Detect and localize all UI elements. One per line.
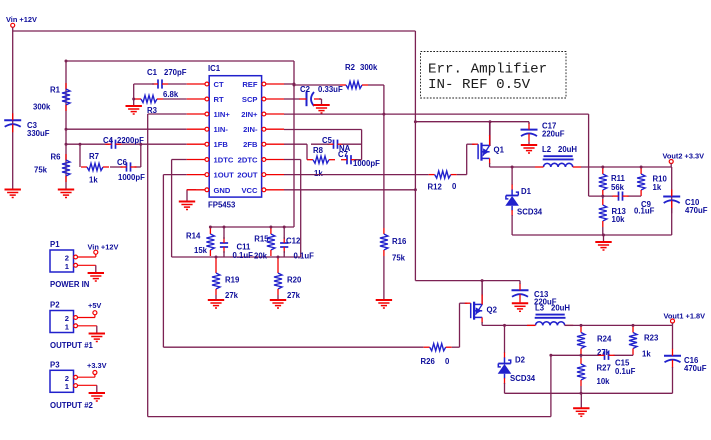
svg-text:1FB: 1FB xyxy=(214,140,229,149)
svg-text:1000pF: 1000pF xyxy=(118,173,145,182)
wire 1DTC drop xyxy=(172,160,187,258)
label C15 xyxy=(615,359,630,368)
svg-text:330uF: 330uF xyxy=(27,129,50,138)
svg-text:270pF: 270pF xyxy=(164,68,187,77)
wire feedback rail ch2 xyxy=(551,354,633,357)
wire R26 to Q2 gate xyxy=(452,303,468,347)
ground for P3 xyxy=(89,385,105,401)
wire VCC rail xyxy=(284,189,415,191)
wire P2 pin2 to +5V terminal xyxy=(78,315,95,318)
wire Q1 drain riser xyxy=(489,122,491,146)
svg-text:P1: P1 xyxy=(50,240,60,249)
wire 1IN- rail xyxy=(66,128,187,130)
svg-text:75k: 75k xyxy=(34,166,48,175)
label R27 value 10k xyxy=(597,377,611,386)
label R12 value 0 xyxy=(452,182,457,191)
svg-text:C4: C4 xyxy=(103,136,114,145)
label R8 xyxy=(313,146,324,155)
svg-text:Q1: Q1 xyxy=(494,146,505,155)
ground for C13 xyxy=(512,302,528,311)
label Vout1 +1.8V xyxy=(664,312,706,321)
connector P1 box xyxy=(50,250,78,272)
label R13 value 10k xyxy=(612,215,626,224)
label R2 xyxy=(345,63,356,72)
svg-text:IC1: IC1 xyxy=(208,64,221,73)
svg-text:CT: CT xyxy=(214,80,224,89)
resistor R7 1k xyxy=(81,163,109,170)
label C2 value 0.33uF xyxy=(318,85,343,94)
wire R16 to ground xyxy=(383,256,385,300)
resistor R14 15k xyxy=(206,228,214,256)
svg-text:SCD34: SCD34 xyxy=(517,207,543,216)
svg-text:R1: R1 xyxy=(50,86,61,95)
label R3 value 6.8k xyxy=(163,90,179,99)
svg-text:FP5453: FP5453 xyxy=(208,201,236,210)
wire +12V top rail xyxy=(13,30,416,32)
label R1 value 300k xyxy=(33,103,51,112)
label C5 value NA xyxy=(339,144,351,153)
svg-text:R2: R2 xyxy=(345,63,356,72)
capacitor C12 0.1uF xyxy=(280,227,288,257)
label R6 value 75k xyxy=(34,166,48,175)
ground for C2 xyxy=(313,99,329,113)
label C5 xyxy=(322,136,333,145)
wire 2OUT rail to R12 xyxy=(284,174,429,176)
wire feedback rail ch1 xyxy=(589,195,642,197)
wire C2 to ground xyxy=(319,98,322,100)
svg-text:+5V: +5V xyxy=(88,301,101,310)
label C2 xyxy=(300,85,311,94)
svg-text:R8: R8 xyxy=(313,146,324,155)
node Vout1 +1.8V terminal xyxy=(671,319,675,325)
label R20 value 27k xyxy=(287,291,301,300)
wire R24-R27 junction xyxy=(580,355,582,359)
svg-text:C5: C5 xyxy=(322,136,333,145)
resistor R20 27k xyxy=(274,267,282,295)
label R23 value 1k xyxy=(642,349,651,358)
label R13 xyxy=(612,207,627,216)
svg-text:SCD34: SCD34 xyxy=(510,374,536,383)
svg-text:1k: 1k xyxy=(89,176,98,185)
svg-text:R14: R14 xyxy=(186,232,201,241)
label R10 xyxy=(653,175,668,184)
svg-text:1OUT: 1OUT xyxy=(214,171,235,180)
svg-text:SCP: SCP xyxy=(242,95,258,104)
resistor R2 300k xyxy=(340,81,368,88)
wire REF to R2 xyxy=(294,84,340,86)
capacitor C2 0.33uF xyxy=(300,92,322,106)
label R16 xyxy=(392,237,407,246)
label R10 value 1k xyxy=(653,183,662,192)
svg-text:RT: RT xyxy=(214,95,224,104)
label Q1 xyxy=(494,146,505,155)
svg-text:R6: R6 xyxy=(51,153,62,162)
label OUTPUT #1 xyxy=(50,341,94,350)
capacitor C5 (NA) xyxy=(311,140,362,149)
wire R1/R6 divider vertical xyxy=(65,61,67,190)
connector P2 box xyxy=(50,311,78,333)
svg-text:D2: D2 xyxy=(515,356,526,365)
svg-text:27k: 27k xyxy=(225,291,239,300)
svg-text:R26: R26 xyxy=(421,357,436,366)
label D2 xyxy=(515,356,526,365)
wire Vout2 to C10 xyxy=(671,167,673,213)
svg-text:P2: P2 xyxy=(50,301,60,310)
wire P1 pin1 to ground xyxy=(78,264,96,266)
note box Err. Amplifier IN- REF 0.5V xyxy=(421,52,567,99)
inductor L2 20uH xyxy=(535,156,581,167)
label C7 xyxy=(338,150,348,159)
resistor R3 6.8k xyxy=(135,95,163,102)
label C15 value 0.1uF xyxy=(615,367,636,376)
svg-text:1k: 1k xyxy=(653,183,662,192)
wire R20 to ground xyxy=(277,295,279,300)
wire C16 to rail xyxy=(672,367,674,393)
wire Q2 source to L3 xyxy=(482,324,535,326)
label L2 xyxy=(542,145,552,154)
capacitor C16 470uF xyxy=(664,349,681,368)
svg-text:R11: R11 xyxy=(611,174,626,183)
pin GND (left 8) xyxy=(187,186,231,195)
svg-text:D1: D1 xyxy=(521,187,532,196)
wire DTC bottom rail xyxy=(172,256,301,258)
ground for R19 xyxy=(208,300,224,308)
svg-text:R27: R27 xyxy=(597,364,611,373)
svg-text:27k: 27k xyxy=(287,291,301,300)
transistor Q2 xyxy=(465,281,483,326)
svg-text:C1: C1 xyxy=(147,68,158,77)
svg-text:R20: R20 xyxy=(287,276,302,285)
wire 1OUT rail to R26 xyxy=(163,346,423,348)
diode D2 SCD34 xyxy=(498,353,512,385)
wire CT/RT ground branch vertical xyxy=(133,84,135,99)
svg-text:C2: C2 xyxy=(300,85,311,94)
label R26 xyxy=(421,357,436,366)
resistor R10 1k xyxy=(637,168,645,196)
pin 2IN- (right 13) xyxy=(243,125,284,134)
resistor R1 300k xyxy=(62,83,70,111)
label C4 xyxy=(103,136,114,145)
wire CT pin to C1 xyxy=(168,83,187,85)
wire D1 to bottom rail xyxy=(511,215,513,235)
label R3 xyxy=(147,106,158,115)
wire 2IN- to C5 network xyxy=(284,130,362,160)
label R2 value 300k xyxy=(360,63,378,72)
resistor R27 10k xyxy=(577,358,585,386)
label R12 xyxy=(428,183,443,192)
label C16 value 470uF xyxy=(684,364,707,373)
svg-text:Vin +12V: Vin +12V xyxy=(88,243,119,252)
svg-text:0.1uF: 0.1uF xyxy=(634,207,655,216)
resistor R11 56k xyxy=(599,168,607,196)
wire R19 to ground xyxy=(215,295,217,300)
wire sense drop ch2 xyxy=(550,355,552,416)
wire R20 top xyxy=(277,257,279,267)
pin 2DTC (right 11) xyxy=(238,156,284,165)
svg-text:10k: 10k xyxy=(612,215,626,224)
label R16 value 75k xyxy=(392,254,406,263)
label C16 xyxy=(684,356,699,365)
svg-text:1k: 1k xyxy=(314,169,323,178)
wire R7/C6 branch xyxy=(80,144,141,167)
svg-text:IN- REF 0.5V: IN- REF 0.5V xyxy=(428,77,531,93)
capacitor C7 1000pF xyxy=(341,155,362,164)
capacitor C9 0.1uF xyxy=(613,192,629,201)
op-amp/controller IC1 FP5453 body xyxy=(209,76,261,197)
label C12 value 0.1uF xyxy=(294,251,315,260)
label OUTPUT #2 xyxy=(50,401,94,410)
label FP5453 xyxy=(208,201,236,210)
node Vout2 +3.3V terminal xyxy=(669,160,673,168)
pin 1IN+ (left 3) xyxy=(187,110,231,119)
label R26 value 0 xyxy=(445,357,450,366)
ground for timing network xyxy=(126,99,142,114)
capacitor C13 220uF xyxy=(512,281,529,303)
wire Vout1 to C16 xyxy=(672,325,674,349)
wire channel2 ground rail xyxy=(505,392,673,394)
ground for channel2 xyxy=(573,393,589,416)
label R7 value 1k xyxy=(89,176,98,185)
label R19 xyxy=(225,276,240,285)
label R11 value 56k xyxy=(611,183,625,192)
wire 2IN+ rail xyxy=(284,113,589,115)
svg-text:Vout1 +1.8V: Vout1 +1.8V xyxy=(664,312,706,321)
wire left input rail down to ground xyxy=(12,31,14,190)
resistor R6 75k xyxy=(62,154,70,182)
wire P1 pin2 to Vin terminal xyxy=(78,254,96,257)
svg-text:P3: P3 xyxy=(50,360,60,369)
resistor R15 20k xyxy=(267,228,275,256)
svg-text:Vout2 +3.3V: Vout2 +3.3V xyxy=(663,151,705,160)
resistor R23 1k xyxy=(629,327,637,355)
resistor R26 0 xyxy=(424,344,452,351)
label R19 value 27k xyxy=(225,291,239,300)
label R15 xyxy=(254,235,269,244)
svg-text:56k: 56k xyxy=(611,183,625,192)
wire L3 to Vout1 xyxy=(565,324,673,326)
wire 2DTC drop xyxy=(284,160,301,258)
label R14 xyxy=(186,232,201,241)
label P3 xyxy=(50,360,60,369)
inductor L3 20uH xyxy=(527,315,573,326)
svg-text:C7: C7 xyxy=(338,150,348,159)
svg-text:300k: 300k xyxy=(360,63,378,72)
svg-text:R16: R16 xyxy=(392,237,407,246)
label R11 xyxy=(611,174,626,183)
svg-text:Vin +12V: Vin +12V xyxy=(6,15,37,24)
wire R19 top xyxy=(215,257,217,267)
svg-text:VCC: VCC xyxy=(241,186,258,195)
wire R27 to rail xyxy=(580,386,582,393)
node Vin +12V power terminal xyxy=(11,23,15,31)
capacitor C4 2200pF xyxy=(106,140,122,149)
capacitor C3 330uF xyxy=(4,113,21,132)
svg-text:OUTPUT #1: OUTPUT #1 xyxy=(50,341,94,350)
capacitor C6 1000pF xyxy=(121,162,137,171)
ground for R6 xyxy=(58,190,74,198)
label C10 xyxy=(685,198,700,207)
label R7 xyxy=(89,152,99,161)
resistor R24 27k xyxy=(577,327,585,355)
ground for P1 xyxy=(88,265,104,281)
svg-text:300k: 300k xyxy=(33,103,51,112)
wire GND pin to ground xyxy=(187,189,196,191)
label C13 xyxy=(534,290,549,299)
wire 2IN+ sense drop xyxy=(588,114,590,196)
resistor R19 27k xyxy=(212,267,220,295)
svg-text:1k: 1k xyxy=(642,349,651,358)
svg-text:C6: C6 xyxy=(117,158,128,167)
label +5V xyxy=(88,301,101,310)
pin CT (left 1) xyxy=(187,80,224,89)
ground for P2 xyxy=(89,326,105,342)
pin 2FB (right 12) xyxy=(243,140,284,149)
pin REF (right 16) xyxy=(242,80,284,89)
svg-text:R23: R23 xyxy=(644,334,659,343)
wire SCP to C2 xyxy=(284,98,300,100)
label C6 xyxy=(117,158,128,167)
svg-text:R24: R24 xyxy=(597,335,612,344)
capacitor C1 270pF xyxy=(152,79,168,88)
label Vin +12V xyxy=(6,15,37,24)
label C17 value 220uF xyxy=(542,129,565,138)
label R23 xyxy=(644,334,659,343)
ground for C3 xyxy=(5,190,21,198)
resistor R13 10k xyxy=(599,199,607,227)
svg-text:20uH: 20uH xyxy=(558,145,577,154)
label C4 value 2200pF xyxy=(117,136,144,145)
wire R12 to Q1 gate xyxy=(457,144,475,174)
svg-text:0.1uF: 0.1uF xyxy=(615,367,636,376)
label C11 value 0.1uF xyxy=(233,251,254,260)
svg-text:C12: C12 xyxy=(286,236,301,245)
wire 1FB rail xyxy=(66,143,187,145)
wire REF rail y61 xyxy=(66,60,294,62)
svg-text:20k: 20k xyxy=(254,251,268,260)
label C9 value 0.1uF xyxy=(634,207,655,216)
svg-text:OUTPUT #2: OUTPUT #2 xyxy=(50,401,94,410)
label P2 xyxy=(50,301,60,310)
svg-text:0: 0 xyxy=(445,357,450,366)
svg-text:0.1uF: 0.1uF xyxy=(294,251,315,260)
svg-text:R7: R7 xyxy=(89,152,99,161)
ground for C17 xyxy=(521,142,537,153)
svg-text:REF: REF xyxy=(242,80,258,89)
svg-text:10k: 10k xyxy=(597,377,611,386)
svg-text:2DTC: 2DTC xyxy=(238,156,258,165)
svg-text:L2: L2 xyxy=(542,145,552,154)
svg-text:R15: R15 xyxy=(254,235,269,244)
wire switch node to D1 xyxy=(511,167,513,185)
wire channel1 ground rail xyxy=(512,234,672,236)
capacitor C11 0.1uF xyxy=(220,227,228,257)
label C7 value 1000pF xyxy=(353,159,380,168)
label +3.3V xyxy=(87,361,107,370)
wire R3 to RT pin xyxy=(163,98,187,100)
svg-text:470uF: 470uF xyxy=(684,364,707,373)
label R8 value 1k xyxy=(314,169,323,178)
wire L2 to Vout2 xyxy=(581,166,672,168)
ground for IC GND pin xyxy=(179,190,195,210)
svg-text:20uH: 20uH xyxy=(551,304,570,313)
label R6 xyxy=(51,153,62,162)
svg-text:6.8k: 6.8k xyxy=(163,90,179,99)
ground for R16 xyxy=(376,300,392,308)
label C1 value 270pF xyxy=(164,68,187,77)
wire +12V vertical xyxy=(414,31,416,281)
wire D2 to bottom rail xyxy=(504,383,506,393)
label POWER IN xyxy=(50,280,90,289)
capacitor C15 0.1uF xyxy=(599,351,615,360)
svg-text:0.1uF: 0.1uF xyxy=(233,251,254,260)
svg-text:Q2: Q2 xyxy=(487,306,498,315)
label L3 value 20uH xyxy=(551,304,570,313)
node P3 +3.3V terminal xyxy=(93,371,97,375)
label R1 xyxy=(50,86,61,95)
pin RT (left 2) xyxy=(187,95,224,104)
label Q2 xyxy=(487,306,498,315)
label C12 xyxy=(286,236,301,245)
node P1 Vin +12V terminal xyxy=(94,250,98,254)
resistor R16 75k xyxy=(380,228,388,256)
label C3 xyxy=(27,121,38,130)
label P1 xyxy=(50,240,60,249)
pin SCP (right 15) xyxy=(242,95,284,104)
pin 2IN+ (right 14) xyxy=(241,110,284,119)
wire R13 stub xyxy=(602,196,604,235)
wire 1IN+ sense wire xyxy=(148,114,187,417)
label C3 value 330uF xyxy=(27,129,50,138)
label C17 xyxy=(542,122,556,131)
label R24 value 27k xyxy=(597,348,611,357)
wire switch node to D2 xyxy=(504,325,506,353)
connector P3 box xyxy=(50,370,78,392)
pin 1IN- (left 4) xyxy=(187,125,229,134)
svg-text:R12: R12 xyxy=(428,183,443,192)
wire C10 to rail xyxy=(671,208,673,235)
svg-text:2FB: 2FB xyxy=(243,140,258,149)
wire R2 to R16 vertical xyxy=(368,85,384,228)
pin VCC (right 9) xyxy=(241,186,284,195)
svg-text:Err. Amplifier: Err. Amplifier xyxy=(428,62,547,78)
svg-text:POWER IN: POWER IN xyxy=(50,280,90,289)
wire P3 pin1 to ground xyxy=(78,384,97,386)
svg-text:R19: R19 xyxy=(225,276,240,285)
label C11 xyxy=(237,243,252,252)
pin 1DTC (left 6) xyxy=(187,156,234,165)
label R14 value 15k xyxy=(194,246,208,255)
label C6 value 1000pF xyxy=(118,173,145,182)
label C9 xyxy=(641,200,652,209)
svg-text:1DTC: 1DTC xyxy=(214,156,234,165)
label D1 xyxy=(521,187,532,196)
svg-text:L3: L3 xyxy=(535,304,545,313)
label IC1 xyxy=(208,64,221,73)
svg-text:GND: GND xyxy=(214,186,231,195)
wire DTC top rail xyxy=(210,226,294,228)
wire Q1 source to L2 xyxy=(490,166,535,168)
label D1 part SCD34 xyxy=(517,207,543,216)
label C1 xyxy=(147,68,158,77)
wire bottom sense rail xyxy=(148,416,551,418)
label R15 value 20k xyxy=(254,251,268,260)
label R20 xyxy=(287,276,302,285)
node P2 +5V terminal xyxy=(93,311,97,315)
svg-text:1IN+: 1IN+ xyxy=(214,110,231,119)
ground for R20 xyxy=(270,300,286,308)
label L3 xyxy=(535,304,545,313)
wire C1 to corner xyxy=(134,83,154,85)
